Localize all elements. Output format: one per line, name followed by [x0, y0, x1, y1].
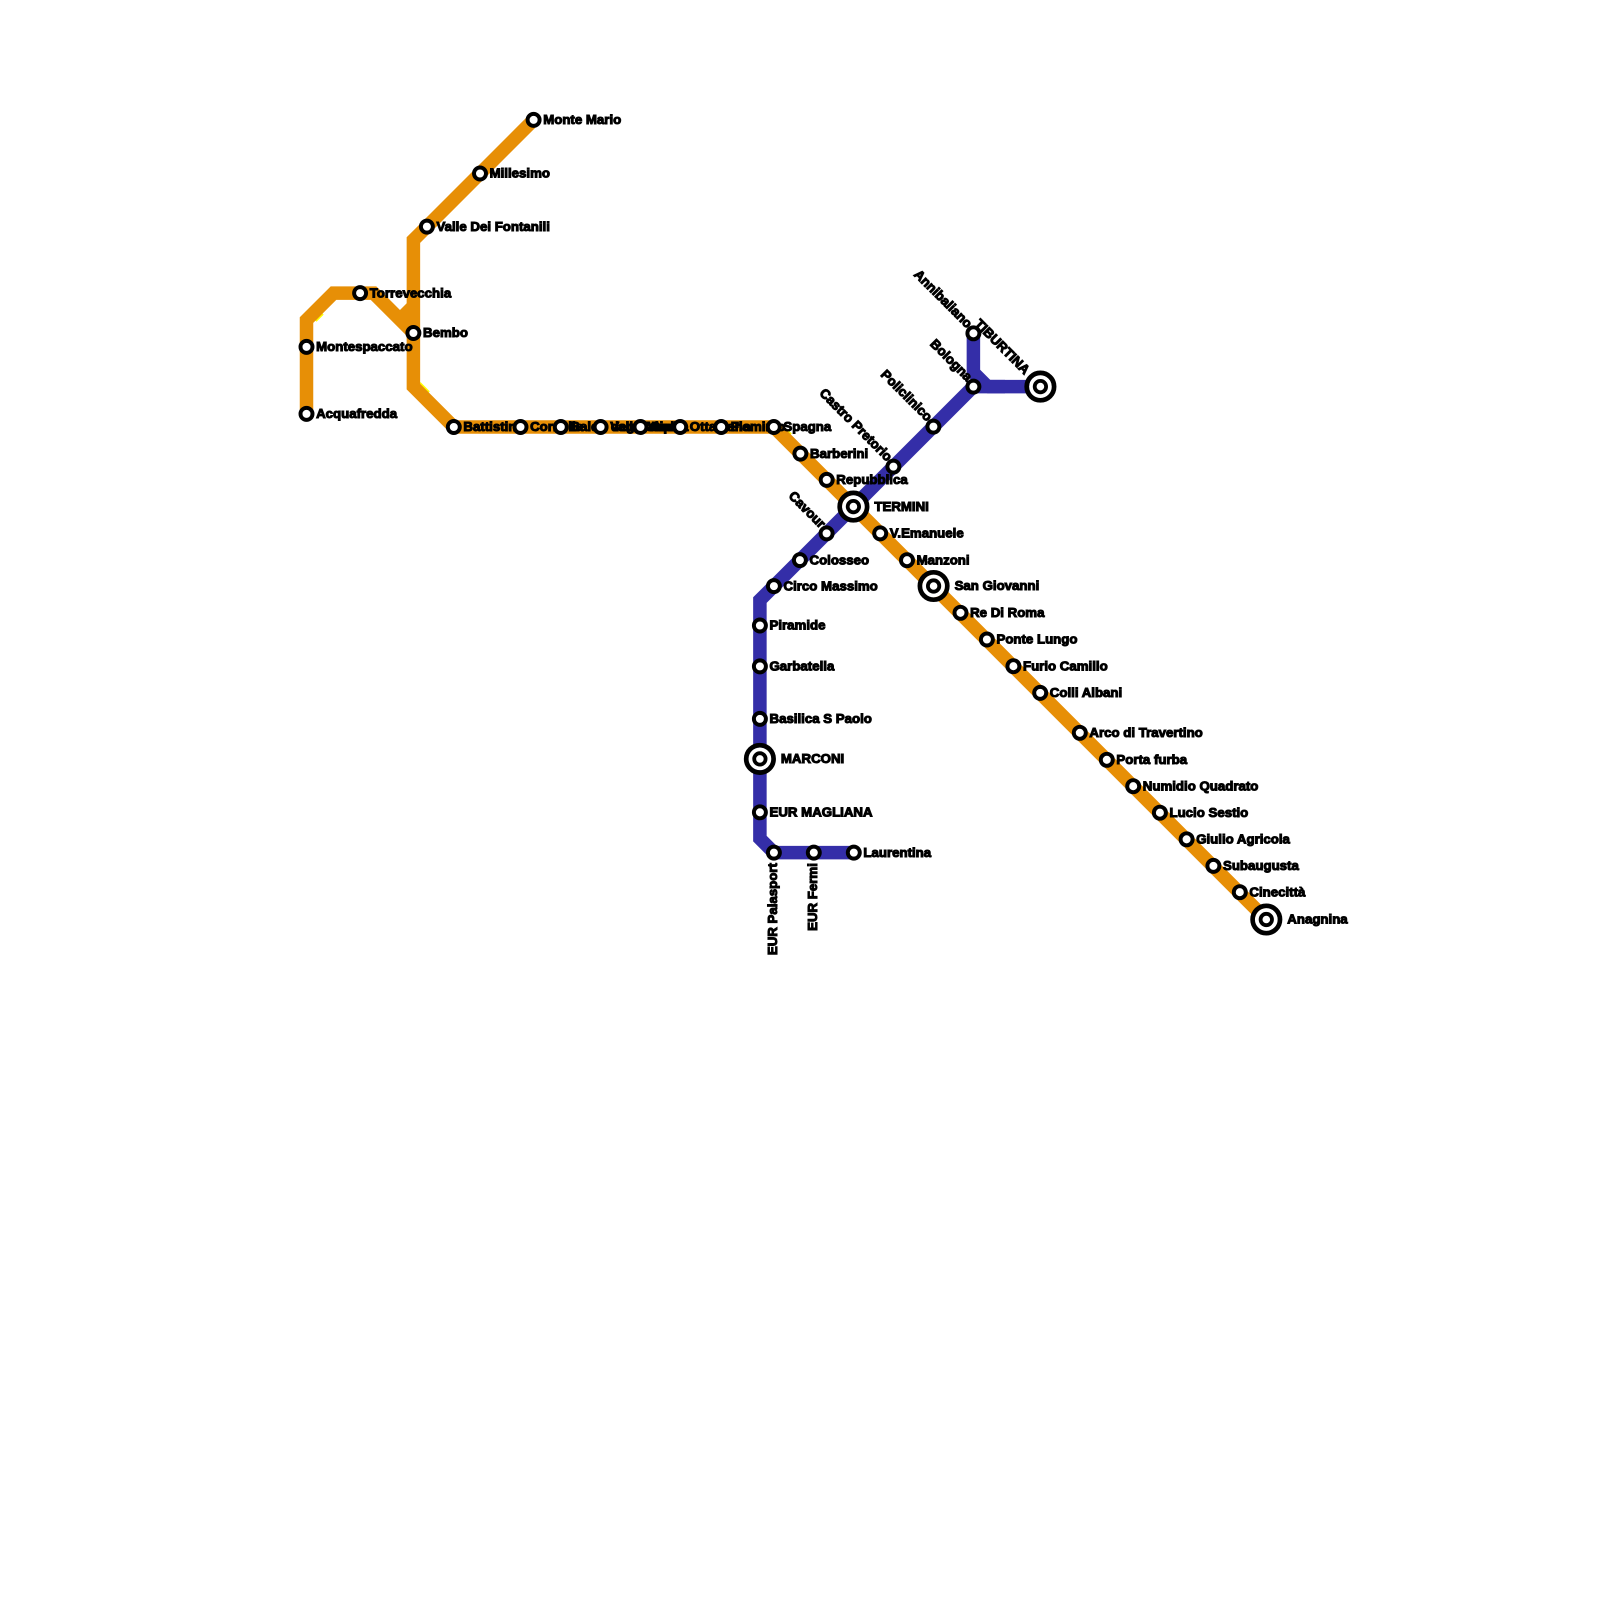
svg-text:Montespaccato: Montespaccato [316, 339, 412, 354]
svg-text:Ponte Lungo: Ponte Lungo [997, 632, 1078, 647]
line A station Ottaviano [674, 419, 751, 434]
line B station Garbatella [754, 659, 835, 674]
line B station Annibaliano [911, 267, 979, 340]
line B station Castro Pretorio [817, 385, 900, 472]
svg-text:Cinecittà: Cinecittà [1249, 884, 1306, 899]
yellow line sliver at Battistini bend [420, 383, 429, 392]
line B station Piramide [754, 618, 826, 633]
yellow line sliver at Spagna bend [787, 430, 791, 434]
svg-text:EUR MAGLIANA: EUR MAGLIANA [770, 805, 873, 820]
line B station TIBURTINA [972, 316, 1054, 400]
svg-text:Acquafredda: Acquafredda [316, 406, 398, 421]
line B station EUR MAGLIANA [754, 805, 873, 820]
line A station Arco di Travertino [1074, 725, 1203, 740]
line A station Giulio Agricola [1181, 832, 1291, 847]
svg-text:San Giovanni: San Giovanni [955, 578, 1040, 593]
svg-text:Lucio Sestio: Lucio Sestio [1170, 805, 1249, 820]
line B station MARCONI [746, 745, 844, 772]
line A station San Giovanni [920, 572, 1039, 599]
metro line A main (Monte Mario - Anagnina) [413, 120, 1266, 920]
line A station Barberini [794, 446, 868, 461]
svg-text:V.Emanuele: V.Emanuele [890, 526, 964, 541]
svg-text:Colosseo: Colosseo [810, 552, 870, 567]
line A station Acquafredda [301, 406, 398, 421]
line A station Spagna [768, 419, 832, 434]
line A station Re Di Roma [955, 605, 1046, 620]
svg-text:Manzoni: Manzoni [917, 552, 970, 567]
svg-text:Torrevecchia: Torrevecchia [370, 285, 452, 300]
svg-text:Battistini: Battistini [463, 419, 520, 434]
svg-text:Numidio Quadrato: Numidio Quadrato [1143, 778, 1259, 793]
metro line A wedge stub at Bembo junction [403, 306, 414, 317]
line A station Subaugusta [1207, 858, 1299, 873]
svg-text:TERMINI: TERMINI [874, 499, 928, 514]
svg-text:Giulio Agricola: Giulio Agricola [1196, 832, 1290, 847]
line B station Cavour [786, 488, 833, 539]
svg-text:EUR Fermi: EUR Fermi [805, 863, 820, 931]
line B station Basilica S Paolo [754, 711, 872, 726]
line A station Porta furba [1101, 752, 1188, 767]
svg-text:Barberini: Barberini [810, 446, 868, 461]
line B station EUR Palasport [765, 847, 780, 956]
line A station Montespaccato [301, 339, 413, 354]
svg-text:MARCONI: MARCONI [781, 751, 844, 766]
svg-text:Furio Camillo: Furio Camillo [1023, 658, 1108, 673]
line B station Circo Massimo [768, 578, 878, 593]
metro line B1 branch (Annibaliano - Tiburtina) [973, 333, 1005, 386]
svg-text:Arco di Travertino: Arco di Travertino [1089, 725, 1202, 740]
line A station TERMINI [840, 493, 929, 520]
svg-text:Spagna: Spagna [783, 419, 831, 434]
svg-text:Anagnina: Anagnina [1287, 912, 1348, 927]
line A station Monte Mario [528, 112, 622, 127]
line A station Lucio Sestio [1154, 805, 1248, 820]
line B station Colosseo [794, 552, 869, 567]
svg-text:Re Di Roma: Re Di Roma [970, 605, 1045, 620]
svg-text:Porta furba: Porta furba [1116, 752, 1187, 767]
svg-text:Millesimo: Millesimo [490, 166, 550, 181]
line A station Colli Albani [1034, 685, 1122, 700]
metro line A loop branch (Acquafredda - Torrevecchia - Bembo) [307, 293, 414, 414]
line A station Ponte Lungo [981, 632, 1078, 647]
svg-text:Subaugusta: Subaugusta [1223, 858, 1299, 873]
line A station Bembo [407, 325, 468, 340]
line A station Battistini [448, 419, 520, 434]
yellow line sliver at Montespaccato bend [316, 314, 323, 321]
line A station Millesimo [474, 166, 550, 181]
line A station Flaminio [715, 419, 785, 434]
line B station Bologna [927, 336, 979, 392]
svg-text:Circo Massimo: Circo Massimo [784, 578, 878, 593]
svg-text:Piramide: Piramide [770, 618, 826, 633]
svg-text:Monte Mario: Monte Mario [543, 112, 621, 127]
line B station EUR Fermi [805, 847, 820, 931]
line A station Baldo degli Ubaldi [555, 419, 686, 434]
line A station Repubblica [821, 472, 909, 487]
line A station Torrevecchia [354, 285, 452, 300]
svg-text:Basilica S Paolo: Basilica S Paolo [770, 711, 872, 726]
line A station Anagnina [1253, 906, 1349, 933]
line A station Manzoni [901, 552, 970, 567]
line A station Cipro [635, 419, 685, 434]
line B station Policlinico [878, 367, 939, 433]
line A station Cinecittà [1234, 884, 1306, 899]
svg-text:Laurentina: Laurentina [863, 845, 931, 860]
line A station Furio Camillo [1007, 658, 1107, 673]
line A station Valle Aurelia [595, 419, 690, 434]
line A station Cornelia [515, 419, 584, 434]
line A station V.Emanuele [874, 526, 964, 541]
line B station Laurentina [848, 845, 932, 860]
svg-text:Valle Dei Fontanili: Valle Dei Fontanili [437, 219, 550, 234]
svg-text:Colli Albani: Colli Albani [1050, 685, 1122, 700]
metro line B main (Laurentina - Termini - Tiburtina) [760, 387, 1041, 853]
line A station Valle Dei Fontanili [421, 219, 550, 234]
svg-text:Garbatella: Garbatella [770, 659, 835, 674]
svg-text:EUR Palasport: EUR Palasport [765, 863, 780, 956]
svg-text:Repubblica: Repubblica [836, 472, 908, 487]
line A station Numidio Quadrato [1127, 778, 1258, 793]
svg-text:Bembo: Bembo [423, 325, 468, 340]
